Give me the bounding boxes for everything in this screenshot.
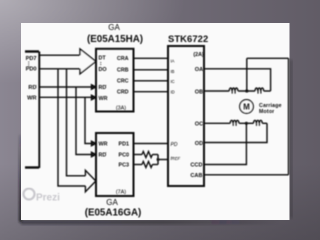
svg-text:DO: DO bbox=[99, 67, 107, 73]
arrowhead RD 3A bbox=[92, 85, 96, 89]
coil L1 ticks bbox=[232, 91, 235, 94]
svg-text:OA: OA bbox=[195, 67, 203, 73]
svg-text:PD: PD bbox=[171, 142, 178, 148]
svg-text:CRD: CRD bbox=[117, 90, 129, 96]
svg-text:(2A): (2A) bbox=[193, 52, 204, 58]
wire join resistors bbox=[157, 155, 159, 165]
arrowhead WR 7A bbox=[92, 141, 96, 145]
svg-text:WR: WR bbox=[27, 95, 36, 101]
cpu box bottom bar bbox=[25, 166, 39, 168]
white slide bbox=[21, 23, 290, 220]
svg-text:PD7: PD7 bbox=[26, 56, 37, 62]
bus arrow into 7A bbox=[85, 170, 95, 192]
cpu box right edge bbox=[38, 52, 40, 169]
GA 3A box bbox=[96, 49, 134, 112]
svg-text:WR: WR bbox=[99, 96, 108, 102]
junction upper center tap bbox=[245, 89, 248, 92]
svg-text:(E05A16GA): (E05A16GA) bbox=[85, 207, 142, 218]
junction fREF bbox=[157, 158, 160, 161]
slide shadow right bbox=[290, 60, 292, 218]
wire PD0 bbox=[39, 68, 80, 70]
wire L1-L2 bbox=[238, 90, 255, 92]
svg-text:PD0: PD0 bbox=[26, 67, 37, 73]
GA 7A box bbox=[96, 133, 134, 196]
coil L2 ticks bbox=[258, 91, 261, 94]
wire CRB-IB bbox=[134, 69, 169, 71]
resistor R2 bbox=[142, 162, 152, 168]
wire RD drop to 7A bbox=[76, 87, 92, 155]
wire PC0 bbox=[134, 154, 143, 156]
wire OD riser bbox=[204, 123, 267, 142]
wire top rail bbox=[247, 57, 289, 59]
svg-text:Carriage: Carriage bbox=[259, 103, 282, 109]
bus dots 3A bbox=[100, 62, 101, 65]
svg-text:PC0: PC0 bbox=[119, 152, 130, 158]
wire CRD-ID bbox=[134, 91, 169, 93]
Prezi watermark circle bbox=[24, 189, 35, 200]
svg-text:RD: RD bbox=[28, 85, 36, 91]
svg-text:OB: OB bbox=[195, 90, 203, 96]
svg-text:Motor: Motor bbox=[259, 109, 274, 115]
svg-text:STK6722: STK6722 bbox=[168, 33, 208, 44]
bus drop inner bbox=[67, 69, 86, 176]
svg-text:M: M bbox=[243, 102, 250, 111]
svg-text:IA: IA bbox=[171, 58, 175, 63]
junction lower center tap bbox=[245, 122, 248, 125]
coil L4 bbox=[254, 120, 263, 123]
svg-text:RD: RD bbox=[99, 152, 107, 158]
svg-text:(7A): (7A) bbox=[116, 190, 126, 196]
bus arrow into 3A bbox=[80, 49, 96, 74]
svg-text:CRA: CRA bbox=[117, 56, 129, 62]
svg-text:CRC: CRC bbox=[117, 79, 129, 85]
slide shadow left lower bbox=[19, 135, 22, 222]
svg-text:GA: GA bbox=[108, 23, 120, 32]
bus drop outer bbox=[58, 69, 85, 186]
wire WR to 3A bbox=[39, 96, 92, 98]
svg-text:PD1: PD1 bbox=[119, 141, 130, 147]
wire right riser bbox=[288, 58, 290, 175]
svg-text:fREF: fREF bbox=[171, 156, 181, 161]
wire to fREF bbox=[158, 159, 168, 161]
motor M1 circle bbox=[240, 100, 254, 114]
svg-text:GA: GA bbox=[106, 198, 118, 207]
cpu box top bar bbox=[25, 50, 39, 52]
wire L4 right bbox=[262, 122, 267, 124]
coil L3 ticks bbox=[233, 123, 236, 126]
wire CCD riser bbox=[204, 123, 246, 164]
svg-text:IB: IB bbox=[171, 69, 175, 74]
slide shadow bottom bbox=[21, 220, 281, 225]
svg-text:CCD: CCD bbox=[190, 163, 202, 169]
svg-text:DT: DT bbox=[99, 56, 107, 62]
wire upper center tap riser bbox=[246, 58, 248, 91]
wire RD to 3A bbox=[39, 86, 92, 88]
wire WR drop to 7A bbox=[85, 97, 92, 143]
svg-text:OC: OC bbox=[195, 121, 203, 127]
svg-text:CRB: CRB bbox=[117, 68, 129, 74]
wire L3-L4 bbox=[239, 122, 253, 124]
wire CAB bbox=[204, 174, 289, 176]
svg-text:PC3: PC3 bbox=[119, 162, 130, 168]
wire PC3 bbox=[134, 164, 143, 166]
STK6722 box bbox=[168, 46, 204, 186]
wire PD7 bbox=[39, 54, 80, 56]
svg-text:CAB: CAB bbox=[190, 173, 202, 179]
wire R1 out bbox=[152, 154, 158, 156]
wire PD1 to PD bbox=[134, 143, 169, 145]
wire OC bbox=[204, 122, 230, 124]
svg-text:OD: OD bbox=[195, 141, 203, 147]
wire CRC-IC bbox=[134, 80, 169, 82]
coil L3 bbox=[230, 120, 239, 123]
svg-text:IC: IC bbox=[171, 79, 175, 84]
bus dots left bbox=[28, 61, 29, 66]
arrowhead RD 7A bbox=[92, 152, 96, 156]
svg-text:Prezi: Prezi bbox=[36, 193, 60, 204]
svg-text:WR: WR bbox=[99, 141, 108, 147]
arrowhead WR 3A bbox=[92, 95, 96, 99]
wire R2 out bbox=[152, 164, 158, 166]
svg-text:(E05A15HA): (E05A15HA) bbox=[87, 34, 143, 45]
wire CRA-IA bbox=[134, 57, 169, 59]
resistor R1 bbox=[142, 152, 152, 158]
wire OB bbox=[204, 90, 229, 92]
coil L2 bbox=[255, 88, 264, 91]
coil L4 ticks bbox=[257, 123, 260, 126]
svg-text:(3A): (3A) bbox=[116, 106, 126, 112]
svg-text:RD: RD bbox=[99, 85, 107, 91]
wire QA bbox=[204, 69, 271, 91]
wire L2 right bbox=[264, 90, 271, 92]
svg-text:ID: ID bbox=[171, 90, 175, 95]
coil L1 bbox=[229, 88, 238, 91]
